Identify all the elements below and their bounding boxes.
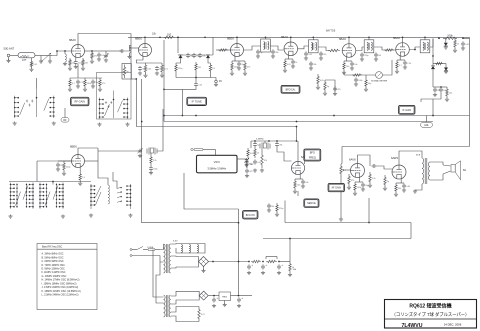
tube V7 crystal oscillator (70, 145, 85, 168)
band switch S1a wafer (14, 89, 55, 118)
wire ant (8, 57, 10, 60)
svg-text:100k: 100k (357, 187, 361, 189)
wire V2 cathode (136, 57, 143, 64)
speaker SP1 (451, 161, 461, 180)
junction (348, 36, 350, 38)
svg-text:1k: 1k (159, 69, 161, 71)
svg-text:+: + (281, 264, 283, 267)
capacitor C9 (186, 53, 190, 58)
tube V3 2nd mixer (227, 37, 244, 57)
ground (453, 49, 457, 53)
wire iftune link (182, 87, 196, 89)
vfo out (237, 158, 247, 160)
ground (212, 304, 216, 308)
ANL diode D4 (431, 66, 435, 69)
svg-text:100k: 100k (234, 66, 238, 68)
audio bottom bus (285, 222, 411, 224)
ground (283, 69, 287, 73)
ground (444, 70, 448, 74)
resistor R6 (84, 78, 86, 88)
bridge rectifier BR1 (199, 257, 209, 267)
bank feed wire (9, 181, 91, 183)
tube V10 AF output (391, 156, 406, 179)
title block (385, 300, 477, 329)
V7 cathode (79, 168, 81, 173)
ground (89, 214, 93, 218)
capacitor C14 (256, 49, 260, 54)
junction (265, 36, 267, 38)
svg-text:A. 3MHz 6MHz OSC: A. 3MHz 6MHz OSC (42, 253, 64, 256)
vfo b down (238, 209, 240, 296)
IF transformer T4 (420, 40, 430, 53)
resistor R3 (69, 58, 71, 67)
svg-text:8Ω: 8Ω (463, 170, 466, 172)
ground (247, 271, 251, 275)
svg-text:14 DEC. 2006: 14 DEC. 2006 (444, 322, 462, 326)
b+ from bridge (209, 261, 250, 263)
resistor R35 (254, 147, 256, 158)
x2 bottom (261, 150, 263, 153)
ground (127, 55, 131, 59)
junction (296, 121, 298, 123)
wire V3 plate (236, 37, 238, 43)
volume potentiometer AF GAIN (340, 164, 342, 176)
b+ to riser (279, 261, 290, 263)
bridge rectifier BR2 (199, 291, 208, 300)
hv loop2 (171, 262, 199, 269)
V7 plate (78, 148, 98, 155)
svg-text:470: 470 (337, 89, 341, 91)
junction (195, 77, 197, 79)
capacitor C33 (275, 142, 279, 147)
tube V4 IF amplifier 1 (281, 35, 298, 56)
svg-text:FREQ: FREQ (309, 157, 316, 160)
anl d5 (445, 64, 447, 68)
ground (316, 86, 320, 90)
v8 row (295, 178, 303, 180)
r32 link (150, 165, 152, 166)
resistor R20 (384, 49, 394, 51)
resistor R36 (294, 179, 296, 190)
junction (268, 140, 270, 142)
capacitor C3 (74, 60, 78, 65)
V6 row (397, 59, 405, 61)
junction (296, 126, 298, 128)
tube V5 IF amplifier 2 (339, 37, 356, 57)
signal meter M1 (376, 72, 383, 79)
det top (430, 39, 433, 48)
tube V2 1st mixer (135, 37, 152, 57)
junction (52, 181, 54, 183)
junction (438, 37, 440, 39)
ground (245, 174, 249, 178)
audio b+ riser (368, 198, 370, 223)
capacitor C36 (301, 179, 305, 184)
voltage regulator U1 (219, 292, 231, 304)
svg-text:6BA6: 6BA6 (393, 36, 400, 40)
bfo freq link (304, 161, 306, 165)
resistor R5 (69, 78, 71, 88)
svg-text:0.01: 0.01 (33, 64, 38, 66)
cathode drop V2 (135, 79, 137, 127)
sence wire (297, 191, 299, 196)
T1 top (265, 37, 267, 39)
pot top (341, 163, 342, 165)
svg-text:2.2k: 2.2k (153, 160, 157, 162)
resistor R21 (396, 60, 398, 70)
crystal switch S3a (10, 183, 34, 209)
V6 out (409, 47, 420, 50)
wire grid coil (125, 45, 130, 51)
resistor R31 (79, 172, 81, 182)
svg-text:B. 5MHz 8MHz OSC: B. 5MHz 8MHz OSC (42, 256, 64, 259)
x2 stub (264, 141, 266, 143)
resistor R39 (354, 182, 356, 192)
volume potentiometer AF GAIN wiper (343, 169, 345, 171)
ground (245, 163, 249, 167)
svg-text:470: 470 (247, 66, 251, 68)
capacitor C37 (267, 203, 271, 208)
output transformer T5 (422, 158, 430, 184)
svg-text:33k: 33k (275, 52, 278, 54)
9v wire (208, 295, 219, 297)
svg-text:220p: 220p (66, 166, 71, 168)
v9 row (355, 181, 363, 183)
junction (414, 49, 416, 51)
svg-text:6BA6: 6BA6 (339, 37, 346, 41)
c33 down (277, 147, 292, 161)
pt2 lower loop (171, 307, 199, 313)
capacitor C19 (350, 61, 354, 66)
svg-text:100: 100 (346, 66, 350, 68)
control label AF GAIN (328, 183, 344, 191)
wire V1 plate (78, 34, 131, 45)
ground (354, 83, 358, 87)
svg-text:D. 7MHz 10MHz OSC: D. 7MHz 10MHz OSC (42, 264, 66, 267)
svg-text:6AR5: 6AR5 (391, 156, 398, 160)
svg-text:BFO/CAL: BFO/CAL (286, 88, 297, 91)
junction (163, 89, 165, 91)
speaker wire top (430, 162, 443, 165)
bridge gnd (203, 267, 205, 271)
capacitor C bank A (26, 100, 33, 107)
ground (138, 72, 142, 76)
wire trimmer top (105, 51, 107, 54)
junction (254, 140, 256, 142)
V4 row (285, 58, 293, 60)
V5 plate (348, 37, 350, 43)
capacitor C17 (304, 51, 308, 56)
capacitor C5 (91, 79, 95, 84)
wire agc row (70, 77, 102, 79)
junction (278, 261, 280, 263)
capacitor C8 (155, 66, 159, 71)
resistor R13 (209, 63, 211, 73)
spk link1 (443, 165, 451, 166)
ground (395, 70, 399, 74)
capacitor C39 (361, 182, 365, 187)
pill drop (426, 116, 428, 123)
junction (424, 36, 426, 38)
capacitor C21 (374, 52, 378, 57)
svg-text:RF GAIN: RF GAIN (74, 100, 85, 104)
bank drop2 (52, 182, 54, 185)
ground (97, 58, 101, 62)
resistor R38 (369, 172, 371, 184)
ground (364, 88, 368, 92)
svg-text:1M: 1M (198, 67, 201, 69)
junction (182, 115, 184, 117)
svg-text:L. 21MHz 24MHz OSC (12MHz×2): L. 21MHz 24MHz OSC (12MHz×2) (42, 294, 79, 297)
ground (98, 88, 102, 92)
xtal net (97, 148, 99, 161)
resistor R24 (324, 80, 326, 92)
junction (368, 222, 370, 224)
junction (204, 36, 206, 38)
resistor R11 (175, 63, 177, 73)
wire grid to V2 (130, 47, 139, 49)
cathode loop box (122, 64, 131, 80)
band table (37, 244, 97, 310)
svg-text:100k: 100k (358, 80, 362, 82)
resistor R9 (144, 63, 146, 74)
svg-text:10k: 10k (305, 182, 308, 184)
anl d4 bot (432, 69, 434, 87)
svg-text:F. 11MHz 14MHz OSC: F. 11MHz 14MHz OSC (42, 271, 66, 274)
trimmer TC2 (137, 148, 142, 153)
V4 cathode drop (288, 56, 290, 59)
component value labels (33, 43, 470, 315)
svg-text:0.05: 0.05 (320, 80, 325, 82)
svg-text:10k: 10k (72, 62, 75, 64)
ground (63, 62, 67, 66)
wire V3 cathode (234, 57, 236, 62)
r11 drop (175, 73, 177, 78)
meter left drop (343, 72, 345, 75)
svg-text:G. 13MHz 16MHz OSC: G. 13MHz 16MHz OSC (42, 275, 67, 278)
ground (149, 171, 153, 175)
resistor R15 (231, 61, 233, 72)
capacitor C22 (403, 60, 407, 65)
wire V1 to V2 grid (106, 50, 122, 52)
capacitor C15 (271, 49, 275, 54)
ground (56, 168, 60, 172)
svg-text:1k: 1k (292, 267, 294, 269)
capacitor C29 (56, 162, 60, 167)
control label BFO FREQ (304, 149, 321, 161)
svg-text:0.05: 0.05 (406, 186, 411, 188)
junction (159, 36, 161, 38)
ground (74, 65, 78, 69)
junction (135, 78, 137, 80)
vfo b wire (184, 173, 239, 209)
ground (62, 172, 66, 176)
svg-text:470: 470 (249, 171, 253, 173)
resistor R1 (30, 60, 32, 68)
ground (293, 190, 297, 194)
speaker wire bottom (430, 174, 443, 180)
switch wiper S2 arrows (117, 187, 122, 202)
T2 top (312, 37, 314, 39)
svg-text:10k: 10k (449, 92, 452, 94)
ground (125, 123, 129, 127)
ground (461, 47, 465, 51)
svg-text:220p: 220p (279, 208, 284, 210)
resistor R35b (261, 152, 263, 168)
junction (462, 37, 464, 39)
heater winding Lb (189, 245, 191, 253)
wire to rf coil (52, 51, 72, 56)
wire varicap row (178, 54, 213, 56)
ground (143, 74, 147, 78)
ground (253, 169, 257, 173)
resistor R14 (218, 49, 228, 51)
svg-text:6BA6: 6BA6 (281, 35, 288, 39)
svg-text:2.2k: 2.2k (80, 82, 84, 84)
coil L1 (65, 54, 67, 62)
svg-text:1M: 1M (85, 62, 88, 64)
junction (91, 50, 93, 52)
wire filter tap (31, 58, 33, 60)
svg-text:2.2k: 2.2k (372, 178, 376, 180)
ground (445, 98, 449, 102)
svg-text:+: + (241, 297, 243, 300)
svg-text:6.3V: 6.3V (173, 241, 178, 243)
IF transformer T3 (364, 40, 374, 53)
junction (163, 115, 165, 117)
input filter FL1 (18, 53, 35, 58)
ground (275, 213, 279, 217)
capacitor C41 (247, 264, 253, 269)
coil bank rail left (90, 184, 95, 209)
ground (160, 74, 164, 78)
b+ riser (289, 239, 291, 262)
capacitor C43 (277, 264, 283, 269)
varicap d2 drop (208, 58, 211, 63)
svg-text:0.05: 0.05 (147, 68, 152, 70)
svg-text:VFO: VFO (214, 160, 221, 164)
ground (230, 72, 234, 76)
junction (238, 222, 240, 224)
pt2 feed2 (156, 262, 164, 303)
bank link2 (37, 160, 72, 162)
det corner right (469, 38, 471, 146)
band switch S1b wafer (99, 91, 129, 120)
ground (29, 68, 33, 72)
v10 row (396, 182, 404, 184)
junction (296, 140, 298, 142)
pot wiper wire (344, 169, 350, 171)
tube V6 IF amplifier 3 (393, 36, 409, 56)
svg-text:5k:8: 5k:8 (416, 155, 421, 157)
svg-text:220p: 220p (178, 68, 183, 70)
svg-text:6BA6: 6BA6 (69, 38, 76, 42)
junction (212, 261, 214, 263)
ground (433, 93, 437, 97)
svg-text:0.1: 0.1 (82, 177, 86, 179)
capacitor C45 (237, 297, 243, 302)
resistor R18 (328, 49, 340, 51)
svg-text:I. 15MHz 18MHz OSC (9MHz×2): I. 15MHz 18MHz OSC (9MHz×2) (42, 282, 77, 285)
svg-text:+: + (265, 264, 267, 267)
heater loop (171, 244, 205, 254)
feed stub h (164, 88, 182, 90)
svg-text:REG: REG (222, 297, 227, 299)
svg-text:1M: 1M (60, 165, 63, 167)
ground (78, 182, 82, 186)
capacitor C24 (333, 86, 337, 91)
r12 drop (195, 72, 197, 78)
svg-text:47k: 47k (437, 90, 440, 92)
wire to trimmer (99, 50, 106, 52)
capacitor C25 (309, 61, 313, 66)
AVC bus (164, 115, 470, 117)
svg-text:3.3MHz: 3.3MHz (256, 139, 264, 141)
junction (333, 115, 335, 117)
svg-text:IF TUNE: IF TUNE (192, 100, 202, 104)
T1 out (270, 46, 284, 50)
svg-text:33k: 33k (142, 69, 145, 71)
capacitor C27 (433, 87, 437, 92)
ground (68, 67, 72, 71)
svg-text:33k: 33k (313, 64, 316, 66)
pot bottom (340, 176, 342, 218)
resistor R26 (443, 34, 457, 40)
net pill RF (61, 118, 69, 123)
coil bank rail right (126, 184, 131, 209)
antenna terminal J1 (7, 54, 10, 57)
ground (68, 88, 72, 92)
V9 plate (358, 155, 371, 166)
ground (403, 66, 407, 70)
resistor R19 (343, 61, 345, 71)
bfo top row (251, 140, 297, 142)
svg-text:0.1: 0.1 (212, 68, 216, 70)
capacitor C7 (138, 66, 142, 71)
T3 top (368, 37, 370, 39)
capacitor C18 (319, 51, 323, 56)
power transformer PT1 (164, 244, 171, 273)
varactor diode D1 (179, 55, 183, 58)
ground (368, 184, 372, 188)
ground (83, 88, 87, 92)
varicap left feed (177, 37, 179, 53)
resistor R43 (251, 260, 261, 262)
ground (243, 72, 247, 76)
ground (333, 92, 337, 96)
resistor R9b (161, 63, 163, 74)
svg-text:SIGNAL METER: SIGNAL METER (371, 80, 388, 83)
meter wire right (382, 60, 392, 75)
junction (312, 36, 314, 38)
v8 down (284, 201, 286, 223)
pt2 feed1 (153, 250, 164, 298)
ground (361, 188, 365, 192)
wire iftune up (195, 78, 197, 83)
wire V1 screen (85, 50, 93, 52)
ground (271, 55, 275, 59)
anl left (432, 56, 434, 66)
V10 plate (399, 151, 422, 165)
wire term (215, 78, 217, 81)
ground (61, 215, 65, 219)
wire cath row (136, 62, 162, 64)
control label BFO CAL (281, 85, 300, 93)
junction (141, 121, 143, 123)
ground (237, 304, 241, 308)
b+ bus bottom (263, 238, 411, 240)
bfo left drop (250, 141, 252, 148)
